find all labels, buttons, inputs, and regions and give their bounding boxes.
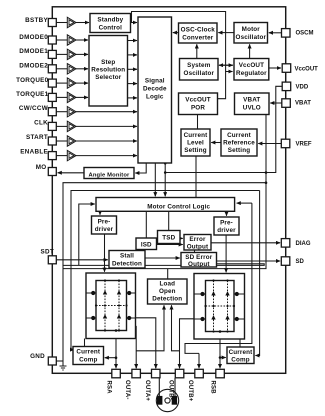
block Step Resolution Selector <box>89 36 128 107</box>
block ISD <box>136 238 157 250</box>
pin OSCM <box>282 29 291 37</box>
svg-text:RSA: RSA <box>106 381 112 395</box>
svg-text:POR: POR <box>191 104 205 111</box>
svg-text:TORQUE0: TORQUE0 <box>16 77 49 84</box>
pin VREF <box>281 139 290 148</box>
wire Stall Detection to SD Error Output <box>145 257 180 259</box>
wire TSD to Error Output <box>180 237 183 239</box>
pin DMODE2 <box>48 65 56 73</box>
wire VBAT to VBAT UVLO <box>270 102 282 104</box>
wire TORQUE1 row <box>56 96 67 98</box>
svg-text:Converter: Converter <box>182 34 213 41</box>
wire VccOUT POR to VccOUT Regulator <box>218 72 226 99</box>
svg-text:Logic: Logic <box>146 93 164 100</box>
block Motor Oscillator <box>234 23 268 44</box>
ground symbol <box>60 366 67 370</box>
pin BSTBY <box>48 19 56 27</box>
wire System Oscillator to VccOUT Regulator bidirectional <box>219 64 233 66</box>
svg-text:Selector: Selector <box>95 74 121 81</box>
pin TORQUE0 <box>48 79 56 87</box>
block OSC-Clock Converter <box>179 23 218 43</box>
svg-text:Setting: Setting <box>184 147 206 154</box>
wire bridge B to RSB with branch to Current Comp <box>219 332 221 369</box>
pin ENABLE <box>48 152 56 160</box>
wire Motor Oscillator to OSC-Clock Converter <box>218 32 234 34</box>
wire Current Comp left up to bridge A <box>84 339 86 347</box>
block Current Level Setting <box>181 129 210 156</box>
block System Oscillator <box>180 59 219 81</box>
svg-text:DIAG: DIAG <box>296 241 311 247</box>
svg-text:Detection: Detection <box>152 295 182 302</box>
block Stall Detection <box>109 251 145 269</box>
svg-text:Motor: Motor <box>242 26 261 33</box>
input buffers (schmitt) x10 <box>67 17 76 161</box>
wire bridge A to OUTA+ <box>136 318 156 368</box>
block Load Open Detection <box>148 279 188 304</box>
svg-text:Error: Error <box>189 236 206 243</box>
svg-text:Output: Output <box>188 261 210 268</box>
wire SD Error Output to SD <box>217 260 281 262</box>
junction dots SDL outputs <box>164 162 267 184</box>
svg-text:driver: driver <box>95 226 114 233</box>
svg-text:START: START <box>26 134 48 141</box>
pin TORQUE1 <box>48 93 56 101</box>
svg-text:MO: MO <box>36 164 47 171</box>
pin CW/CCW <box>48 108 56 116</box>
svg-text:VccOUT: VccOUT <box>239 62 264 69</box>
svg-text:Decode: Decode <box>143 85 167 92</box>
svg-text:RSB: RSB <box>210 381 216 395</box>
wire ENABLE row to SDL <box>56 155 67 157</box>
svg-text:SD Error: SD Error <box>185 254 212 261</box>
svg-text:Pre-: Pre- <box>98 219 111 226</box>
svg-text:VBAT: VBAT <box>295 101 311 107</box>
svg-text:Level: Level <box>187 140 204 147</box>
pin VDD <box>282 82 291 91</box>
pin DMODE0 <box>48 36 56 44</box>
block VBAT UVLO <box>235 93 270 115</box>
svg-text:TORQUE1: TORQUE1 <box>16 91 49 98</box>
pin OUTB+ <box>195 369 204 378</box>
block Standby Control <box>90 14 131 33</box>
wire VDD rail to SDL output row <box>165 86 282 172</box>
svg-text:Current: Current <box>76 349 101 356</box>
svg-text:VDD: VDD <box>296 85 309 91</box>
svg-text:ENABLE: ENABLE <box>20 148 48 155</box>
wire Current Comp right up to bridge B <box>239 339 241 347</box>
block Current Comp right <box>227 347 254 364</box>
wire bridge B to OUTB- <box>180 319 195 368</box>
svg-text:GND: GND <box>30 353 45 360</box>
wire Angle Monitor to MO pin <box>58 172 84 174</box>
svg-text:SD: SD <box>296 259 305 265</box>
svg-text:Step: Step <box>101 59 115 66</box>
wire right loop to Current Comp right <box>255 191 259 356</box>
svg-text:Oscillator: Oscillator <box>184 70 215 77</box>
svg-text:driver: driver <box>217 227 236 234</box>
pin DIAG <box>281 239 290 248</box>
block Signal Decode Logic <box>138 17 172 163</box>
wire Load Open Detection up <box>167 269 169 279</box>
wire SDL to Motor Control Logic x2 <box>154 163 156 196</box>
svg-text:Oscillator: Oscillator <box>236 34 267 41</box>
H-bridge B internals <box>194 281 245 332</box>
svg-text:OSCM: OSCM <box>296 30 314 36</box>
wire SDT to Stall Detection <box>56 259 108 261</box>
svg-text:UVLO: UVLO <box>243 104 261 111</box>
H-bridge A inner box <box>96 281 127 331</box>
svg-text:OUTA-: OUTA- <box>124 380 130 400</box>
pin START <box>48 137 56 145</box>
wire Error Output to SD Error Output <box>194 250 196 253</box>
wire MCL to Pre-driver right <box>226 211 228 216</box>
block VccOUT Regulator <box>234 59 269 81</box>
wire MCL to Pre-driver left <box>99 211 101 215</box>
wire VREF to Current Reference Setting <box>258 143 281 145</box>
pin CLK <box>48 122 56 130</box>
svg-text:OSC-Clock: OSC-Clock <box>181 26 216 33</box>
svg-text:BSTBY: BSTBY <box>25 17 48 24</box>
wire Current Level Setting to Motor Control Logic <box>195 156 197 198</box>
svg-text:Current: Current <box>227 132 252 139</box>
H-bridge A internals <box>86 281 136 331</box>
block SD Error Output <box>181 253 217 268</box>
wire SDL to Angle Monitor <box>135 163 146 173</box>
wire Motor Control Logic right output <box>237 202 252 204</box>
svg-text:Comp: Comp <box>231 356 249 363</box>
svg-text:Output: Output <box>187 244 209 251</box>
svg-text:Regulator: Regulator <box>236 70 267 77</box>
svg-text:System: System <box>187 62 211 69</box>
pin GND <box>48 357 56 365</box>
wire CW/CCW row to SDL <box>56 111 67 113</box>
svg-text:CLK: CLK <box>34 120 48 127</box>
wire ISD to Error Output <box>157 244 183 246</box>
wire OSC-Clock Converter to SDL <box>173 32 179 34</box>
wire Pre-driver left to bridge A <box>104 234 106 272</box>
wire buffer to Standby Control <box>76 22 89 24</box>
pin OUTA- <box>132 369 141 378</box>
wire BSTBY to buffer <box>56 22 67 24</box>
wire ground loop H3 left side <box>63 183 266 366</box>
wire CLK row to SDL <box>56 125 67 127</box>
svg-text:Reference: Reference <box>223 140 255 147</box>
svg-text:Current: Current <box>184 132 209 139</box>
svg-text:Load: Load <box>159 280 175 287</box>
H-bridge B inner box <box>206 281 235 332</box>
svg-text:VccOUT: VccOUT <box>295 66 319 72</box>
wire Standby Control to SDL <box>131 22 138 24</box>
block Angle Monitor <box>84 168 134 179</box>
svg-text:ISD: ISD <box>141 242 152 249</box>
wire Pre-driver right to bridge B <box>225 235 227 272</box>
svg-text:CW/CCW: CW/CCW <box>19 105 48 112</box>
wire START row to SDL <box>56 140 67 142</box>
pin DMODE1 <box>48 50 56 58</box>
svg-text:Signal: Signal <box>145 77 165 84</box>
wire Error Output to DIAG <box>211 242 280 244</box>
block Pre-driver right <box>214 217 239 235</box>
wire VccOUT Regulator to Motor Oscillator <box>249 44 251 58</box>
wire Load Open Detection sense A <box>136 305 164 351</box>
wire System Oscillator to OSC-Clock Converter <box>196 44 198 58</box>
svg-text:VccOUT: VccOUT <box>185 96 210 103</box>
pin SD <box>281 257 290 266</box>
wire DMODE1 row <box>56 53 67 55</box>
pin RSA <box>112 369 121 378</box>
wire DMODE0 row <box>56 39 67 41</box>
svg-text:Pre-: Pre- <box>220 220 233 227</box>
pin RSB <box>216 369 225 378</box>
wire VccOUT Regulator to VccOUT pin <box>269 67 281 69</box>
svg-text:Motor Control Logic: Motor Control Logic <box>147 204 210 211</box>
pin MO <box>48 168 56 176</box>
svg-text:VREF: VREF <box>296 142 312 148</box>
wire TORQUE0 row <box>56 82 67 84</box>
H-bridge A outer box <box>86 273 136 339</box>
wire bridge A to RSA with branch to Current Comp <box>115 331 117 369</box>
wire VBAT UVLO rail down <box>63 115 266 269</box>
block Pre-driver left <box>92 216 117 234</box>
svg-text:OUTB-: OUTB- <box>168 380 174 400</box>
wire bridge A to OUTA- <box>135 326 138 368</box>
block VccOUT POR <box>179 93 218 115</box>
wire lower bus to Motor Control Logic left input <box>63 264 264 266</box>
svg-text:DMODE1: DMODE1 <box>19 48 48 55</box>
chip outline <box>52 7 285 374</box>
svg-text:Standby: Standby <box>97 17 123 24</box>
svg-text:DMODE2: DMODE2 <box>19 63 48 70</box>
svg-text:Stall: Stall <box>120 253 134 260</box>
wire DMODE2 row <box>56 68 67 70</box>
pin SDT <box>48 256 56 264</box>
svg-text:Current: Current <box>229 349 254 356</box>
block Current Reference Setting <box>221 129 257 156</box>
svg-text:Comp: Comp <box>79 357 97 364</box>
wire MCL to ISD <box>145 211 147 238</box>
svg-text:TSD: TSD <box>162 235 175 242</box>
svg-text:VBAT: VBAT <box>243 96 260 103</box>
svg-text:Resolution: Resolution <box>91 67 125 74</box>
svg-text:Control: Control <box>99 25 123 32</box>
pin OUTA+ <box>152 369 161 378</box>
pin VBAT <box>282 99 291 108</box>
wire OUTB+ down <box>198 353 200 368</box>
wire loop H4 to Current Comp left <box>71 191 260 350</box>
wire MCL to TSD <box>168 211 170 230</box>
svg-text:Detection: Detection <box>112 261 142 268</box>
svg-text:Setting: Setting <box>228 147 250 154</box>
block TSD <box>158 231 181 244</box>
svg-text:Open: Open <box>159 288 176 295</box>
wires Step Resolution Selector to SDL x5 <box>128 40 138 42</box>
wire Current Reference Setting to Current Level Setting <box>211 142 221 144</box>
wire GND pin to ground bus <box>56 360 63 362</box>
svg-text:SDT: SDT <box>41 249 55 256</box>
H-bridge B outer box <box>194 274 245 340</box>
wire VccOUT POR to Current Level Setting <box>197 115 199 130</box>
svg-text:DMODE0: DMODE0 <box>19 34 48 41</box>
block Motor Control Logic <box>96 198 235 212</box>
block Error Output <box>184 235 211 251</box>
motor M <box>156 378 178 412</box>
svg-text:Angle Monitor: Angle Monitor <box>89 173 131 179</box>
wire Load Open Detection sense B <box>172 305 180 351</box>
wire OSCM to Motor Oscillator <box>269 32 282 34</box>
wire Standby Control to VccOUT Regulator <box>132 12 233 72</box>
pin OUTB- <box>175 369 184 378</box>
pin VccOUT <box>282 64 291 73</box>
block Current Comp left <box>73 347 104 365</box>
svg-text:OUTB+: OUTB+ <box>187 380 193 402</box>
svg-text:OUTA+: OUTA+ <box>144 380 150 401</box>
